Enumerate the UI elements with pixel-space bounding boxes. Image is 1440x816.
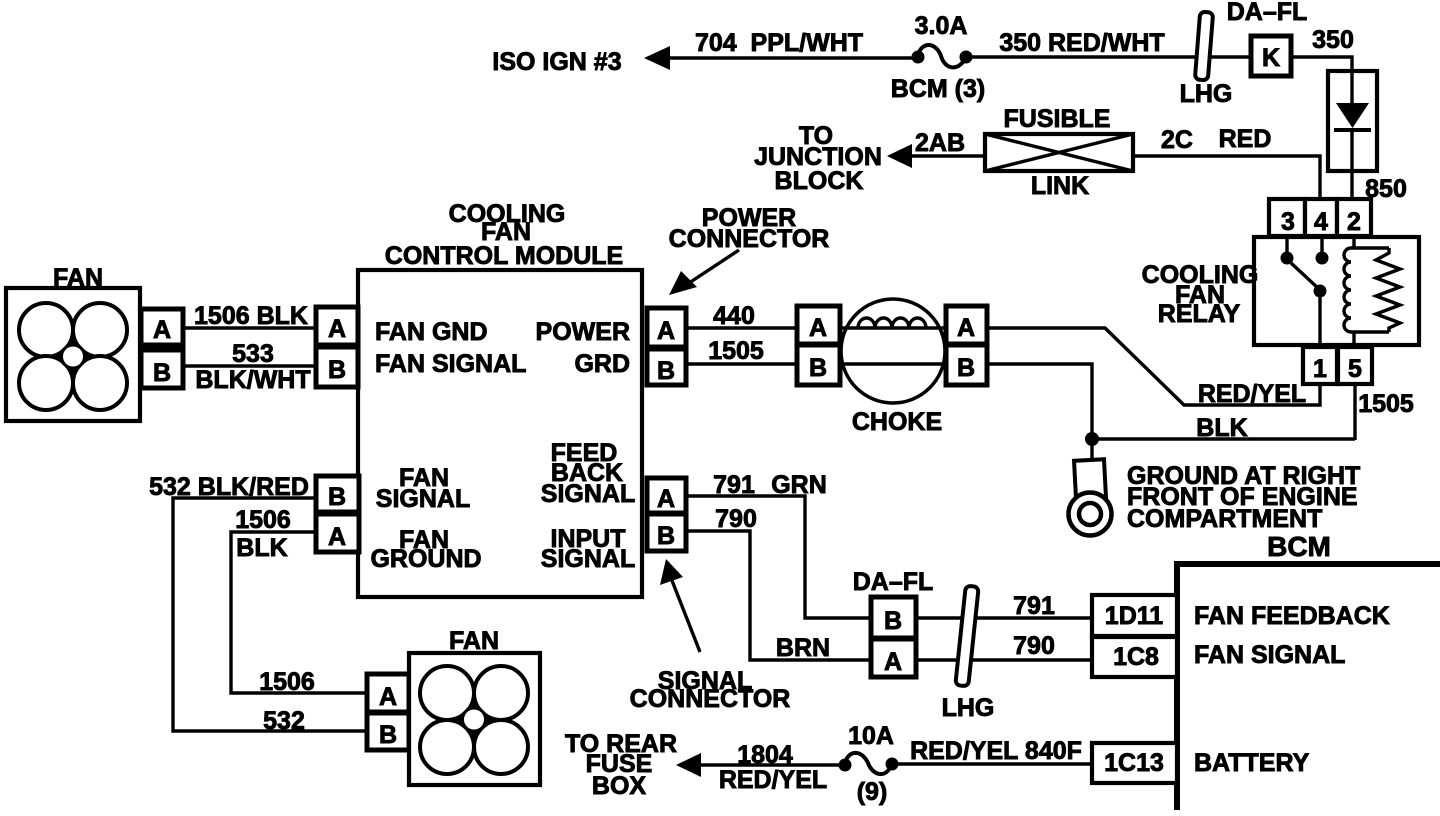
wire 2AB <box>908 154 985 157</box>
terminal 1D11 <box>1092 595 1177 636</box>
svg-text:BLOCK: BLOCK <box>775 167 864 195</box>
wire 2AB arrow <box>887 144 912 168</box>
connector DA-FL pin A <box>871 639 916 677</box>
label COOLING FAN CONTROL MODULE <box>385 200 623 270</box>
svg-text:DA–FL: DA–FL <box>1227 0 1308 26</box>
svg-text:RED/YEL: RED/YEL <box>1198 380 1306 408</box>
label FAN SIGNAL (lower left) <box>376 464 470 513</box>
svg-text:A: A <box>809 314 827 342</box>
module pin B GRD (right top) <box>647 349 686 385</box>
svg-text:791: 791 <box>713 471 755 499</box>
svg-text:1C8: 1C8 <box>1113 643 1159 671</box>
svg-text:532: 532 <box>263 707 305 735</box>
wire 704 PPL/WHT arrow <box>644 46 670 70</box>
relay pin 4 <box>1305 199 1337 236</box>
wire 790 BRN module B to DA-FL A <box>686 531 871 660</box>
svg-text:790: 790 <box>715 505 757 533</box>
wire 2C RED <box>1133 156 1320 201</box>
wire RED/YEL relay pin1 to choke A <box>985 328 1320 405</box>
svg-text:1: 1 <box>1313 355 1327 383</box>
svg-text:B: B <box>153 359 171 387</box>
relay K1 COOLING FAN RELAY body <box>1254 237 1419 345</box>
svg-text:B: B <box>884 607 902 635</box>
svg-text:CONNECTOR: CONNECTOR <box>669 225 830 253</box>
node TO JUNCTION BLOCK <box>754 122 882 195</box>
wire 1506 BLK module A to fan2 A <box>231 532 367 693</box>
svg-text:RED/YEL: RED/YEL <box>719 766 827 794</box>
module pin B 532 (left lower) <box>316 476 359 512</box>
svg-text:A: A <box>379 683 397 711</box>
relay contact pin4 <box>1316 237 1329 265</box>
svg-text:A: A <box>328 523 346 551</box>
connector DA-FL pin B <box>871 597 916 638</box>
svg-text:RED: RED <box>1219 125 1272 153</box>
svg-text:791: 791 <box>1013 592 1055 620</box>
module pin B FAN SIGNAL (left top) <box>316 347 358 387</box>
svg-text:B: B <box>657 522 675 550</box>
module pin A FAN GND (left top) <box>316 307 358 345</box>
wire 350 RED/WHT <box>966 55 1197 58</box>
svg-text:5: 5 <box>1348 355 1362 383</box>
svg-text:A: A <box>328 315 346 343</box>
wire 440 <box>686 326 797 329</box>
svg-text:BRN: BRN <box>776 634 830 662</box>
svg-text:BCM: BCM <box>1267 531 1331 562</box>
wire 791 GRN module A to DA-FL B <box>686 496 871 618</box>
choke L1 <box>840 299 946 403</box>
svg-text:2AB: 2AB <box>915 129 965 157</box>
svg-text:(9): (9) <box>857 778 888 806</box>
svg-text:2: 2 <box>1347 208 1361 236</box>
svg-text:3.0A: 3.0A <box>915 12 968 40</box>
svg-text:A: A <box>957 314 975 342</box>
relay switch arm <box>1291 263 1327 347</box>
label GROUND AT RIGHT FRONT OF ENGINE COMPARTMENT <box>1127 462 1360 533</box>
svg-text:FAN FEEDBACK: FAN FEEDBACK <box>1194 602 1390 630</box>
svg-text:SIGNAL: SIGNAL <box>541 480 635 508</box>
svg-text:GRD: GRD <box>574 350 630 378</box>
svg-text:350 RED/WHT: 350 RED/WHT <box>999 29 1164 57</box>
svg-text:CHOKE: CHOKE <box>852 408 942 436</box>
label FEED BACK SIGNAL <box>541 439 635 508</box>
svg-text:B: B <box>957 354 975 382</box>
svg-text:BCM (3): BCM (3) <box>891 75 985 103</box>
wire 532 BLK/RED module B to fan2 B <box>173 498 367 731</box>
module pin A POWER (right top) <box>647 308 686 347</box>
svg-text:ISO IGN #3: ISO IGN #3 <box>492 48 621 76</box>
ground G101 ring terminal <box>1069 439 1112 536</box>
svg-text:1804: 1804 <box>737 741 793 769</box>
svg-text:FAN SIGNAL: FAN SIGNAL <box>1194 641 1345 669</box>
svg-text:SIGNAL: SIGNAL <box>541 545 635 573</box>
svg-text:LINK: LINK <box>1031 172 1089 200</box>
svg-text:440: 440 <box>713 302 755 330</box>
connector choke-left pin A <box>797 306 840 344</box>
svg-text:GROUND: GROUND <box>370 545 481 573</box>
wire BLK junction to relay pin5 <box>1092 437 1355 440</box>
connector K (DA-FL) <box>1251 36 1291 76</box>
wire 1804 RED/YEL arrow <box>676 753 701 777</box>
connector choke-left pin B <box>797 345 840 385</box>
svg-text:A: A <box>884 648 902 676</box>
svg-text:10A: 10A <box>848 722 894 750</box>
node TO REAR FUSE BOX <box>565 730 677 800</box>
label SIGNAL CONNECTOR <box>630 667 791 713</box>
wire RED/YEL 840F <box>892 762 1092 765</box>
svg-text:COMPARTMENT: COMPARTMENT <box>1127 505 1322 533</box>
svg-text:RED/YEL 840F: RED/YEL 840F <box>910 737 1082 765</box>
wire 1505 <box>686 362 797 365</box>
connector choke-right pin B <box>946 345 987 385</box>
wire 1505 relay pin5 to ground <box>1353 384 1356 440</box>
svg-text:3: 3 <box>1281 208 1295 236</box>
module U1 COOLING FAN CONTROL MODULE <box>358 270 642 597</box>
svg-text:1C13: 1C13 <box>1104 749 1164 777</box>
relay pin 3 <box>1269 199 1305 236</box>
svg-text:SIGNAL: SIGNAL <box>376 485 470 513</box>
svg-text:GRN: GRN <box>771 471 827 499</box>
fan M2 pin B <box>367 713 409 750</box>
svg-text:704 PPL/WHT: 704 PPL/WHT <box>695 29 863 57</box>
svg-text:1D11: 1D11 <box>1105 602 1163 630</box>
fan M2 pin A <box>367 674 409 712</box>
wire 1804 RED/YEL <box>697 763 845 766</box>
connector LHG (bottom) <box>955 586 978 687</box>
svg-text:B: B <box>379 721 397 749</box>
module BCM outline <box>1177 564 1440 810</box>
svg-text:BATTERY: BATTERY <box>1194 749 1310 777</box>
svg-text:B: B <box>328 483 346 511</box>
relay resistor <box>1376 248 1400 332</box>
wire 790 DA-FL A to BCM 1C8 <box>916 658 1092 661</box>
label FAN GROUND <box>370 526 481 573</box>
svg-text:A: A <box>657 485 675 513</box>
wire 533 BLK/WHT <box>183 364 316 367</box>
module pin A 1506 (left lower) <box>316 514 359 552</box>
svg-text:CONNECTOR: CONNECTOR <box>630 685 791 713</box>
relay coil <box>1344 237 1389 347</box>
relay pin 5 <box>1338 347 1372 384</box>
svg-text:DA–FL: DA–FL <box>853 568 934 596</box>
svg-text:FAN GND: FAN GND <box>375 318 488 346</box>
svg-text:BLK/WHT: BLK/WHT <box>195 366 310 394</box>
svg-text:FAN SIGNAL: FAN SIGNAL <box>375 350 526 378</box>
wire LHG to K <box>1211 55 1253 58</box>
relay contact pin3 <box>1281 237 1294 265</box>
motor M2 FAN (bottom) <box>409 653 540 785</box>
fuse 10A (9) <box>839 753 899 774</box>
svg-text:532 BLK/RED: 532 BLK/RED <box>149 473 309 501</box>
svg-text:CONTROL MODULE: CONTROL MODULE <box>385 242 623 270</box>
svg-text:LHG: LHG <box>1180 80 1233 108</box>
svg-text:1506 BLK: 1506 BLK <box>194 302 308 330</box>
terminal 1C8 <box>1092 637 1177 677</box>
connector LHG (top) <box>1195 12 1213 81</box>
fusible link FL1 <box>985 134 1133 171</box>
svg-text:A: A <box>153 316 171 344</box>
svg-text:A: A <box>657 317 675 345</box>
svg-text:1506: 1506 <box>235 506 291 534</box>
svg-text:533: 533 <box>232 340 274 368</box>
connector choke-right pin A <box>946 306 987 344</box>
relay pin 2 <box>1337 199 1371 236</box>
motor M1 FAN (top left) <box>6 288 140 421</box>
svg-text:1505: 1505 <box>1358 390 1414 418</box>
label POWER CONNECTOR <box>669 204 830 253</box>
svg-text:LHG: LHG <box>942 694 995 722</box>
svg-text:2C: 2C <box>1161 126 1193 154</box>
module pin A FEED BACK (right lower) <box>647 478 686 513</box>
svg-text:1505: 1505 <box>708 337 764 365</box>
callout arrow SIGNAL CONNECTOR <box>660 559 700 652</box>
fan M1 pin A <box>141 309 183 345</box>
svg-text:FAN: FAN <box>449 627 499 655</box>
fan M1 pin B <box>141 350 183 388</box>
svg-text:BLK: BLK <box>1196 414 1247 442</box>
callout arrow POWER CONNECTOR <box>669 250 739 295</box>
svg-text:RELAY: RELAY <box>1158 300 1241 328</box>
wire 791 DA-FL B to BCM 1D11 <box>916 616 1092 619</box>
relay pin 1 <box>1303 347 1337 384</box>
module pin B INPUT (right lower) <box>647 514 686 551</box>
wire 1505 BLK choke B to junction <box>987 364 1092 439</box>
wire 350 to diode <box>1291 57 1352 74</box>
svg-text:FUSIBLE: FUSIBLE <box>1004 105 1111 133</box>
svg-text:B: B <box>809 354 827 382</box>
svg-text:350: 350 <box>1312 26 1354 54</box>
wire 1506 BLK <box>183 326 316 329</box>
svg-text:B: B <box>328 356 346 384</box>
svg-text:4: 4 <box>1314 208 1328 236</box>
svg-text:K: K <box>1262 44 1280 72</box>
svg-text:POWER: POWER <box>536 318 630 346</box>
svg-text:1506: 1506 <box>259 668 315 696</box>
svg-text:790: 790 <box>1013 632 1055 660</box>
svg-text:BLK: BLK <box>236 534 287 562</box>
fuse BCM (3) 3.0A <box>912 45 973 67</box>
svg-text:BOX: BOX <box>592 772 647 800</box>
label INPUT SIGNAL <box>541 525 635 573</box>
wire 704 PPL/WHT <box>666 56 918 59</box>
diode D1 <box>1328 71 1377 200</box>
terminal 1C13 <box>1092 743 1177 783</box>
junction dot ground node <box>1085 432 1099 446</box>
label COOLING FAN RELAY <box>1142 261 1259 328</box>
svg-text:B: B <box>657 357 675 385</box>
